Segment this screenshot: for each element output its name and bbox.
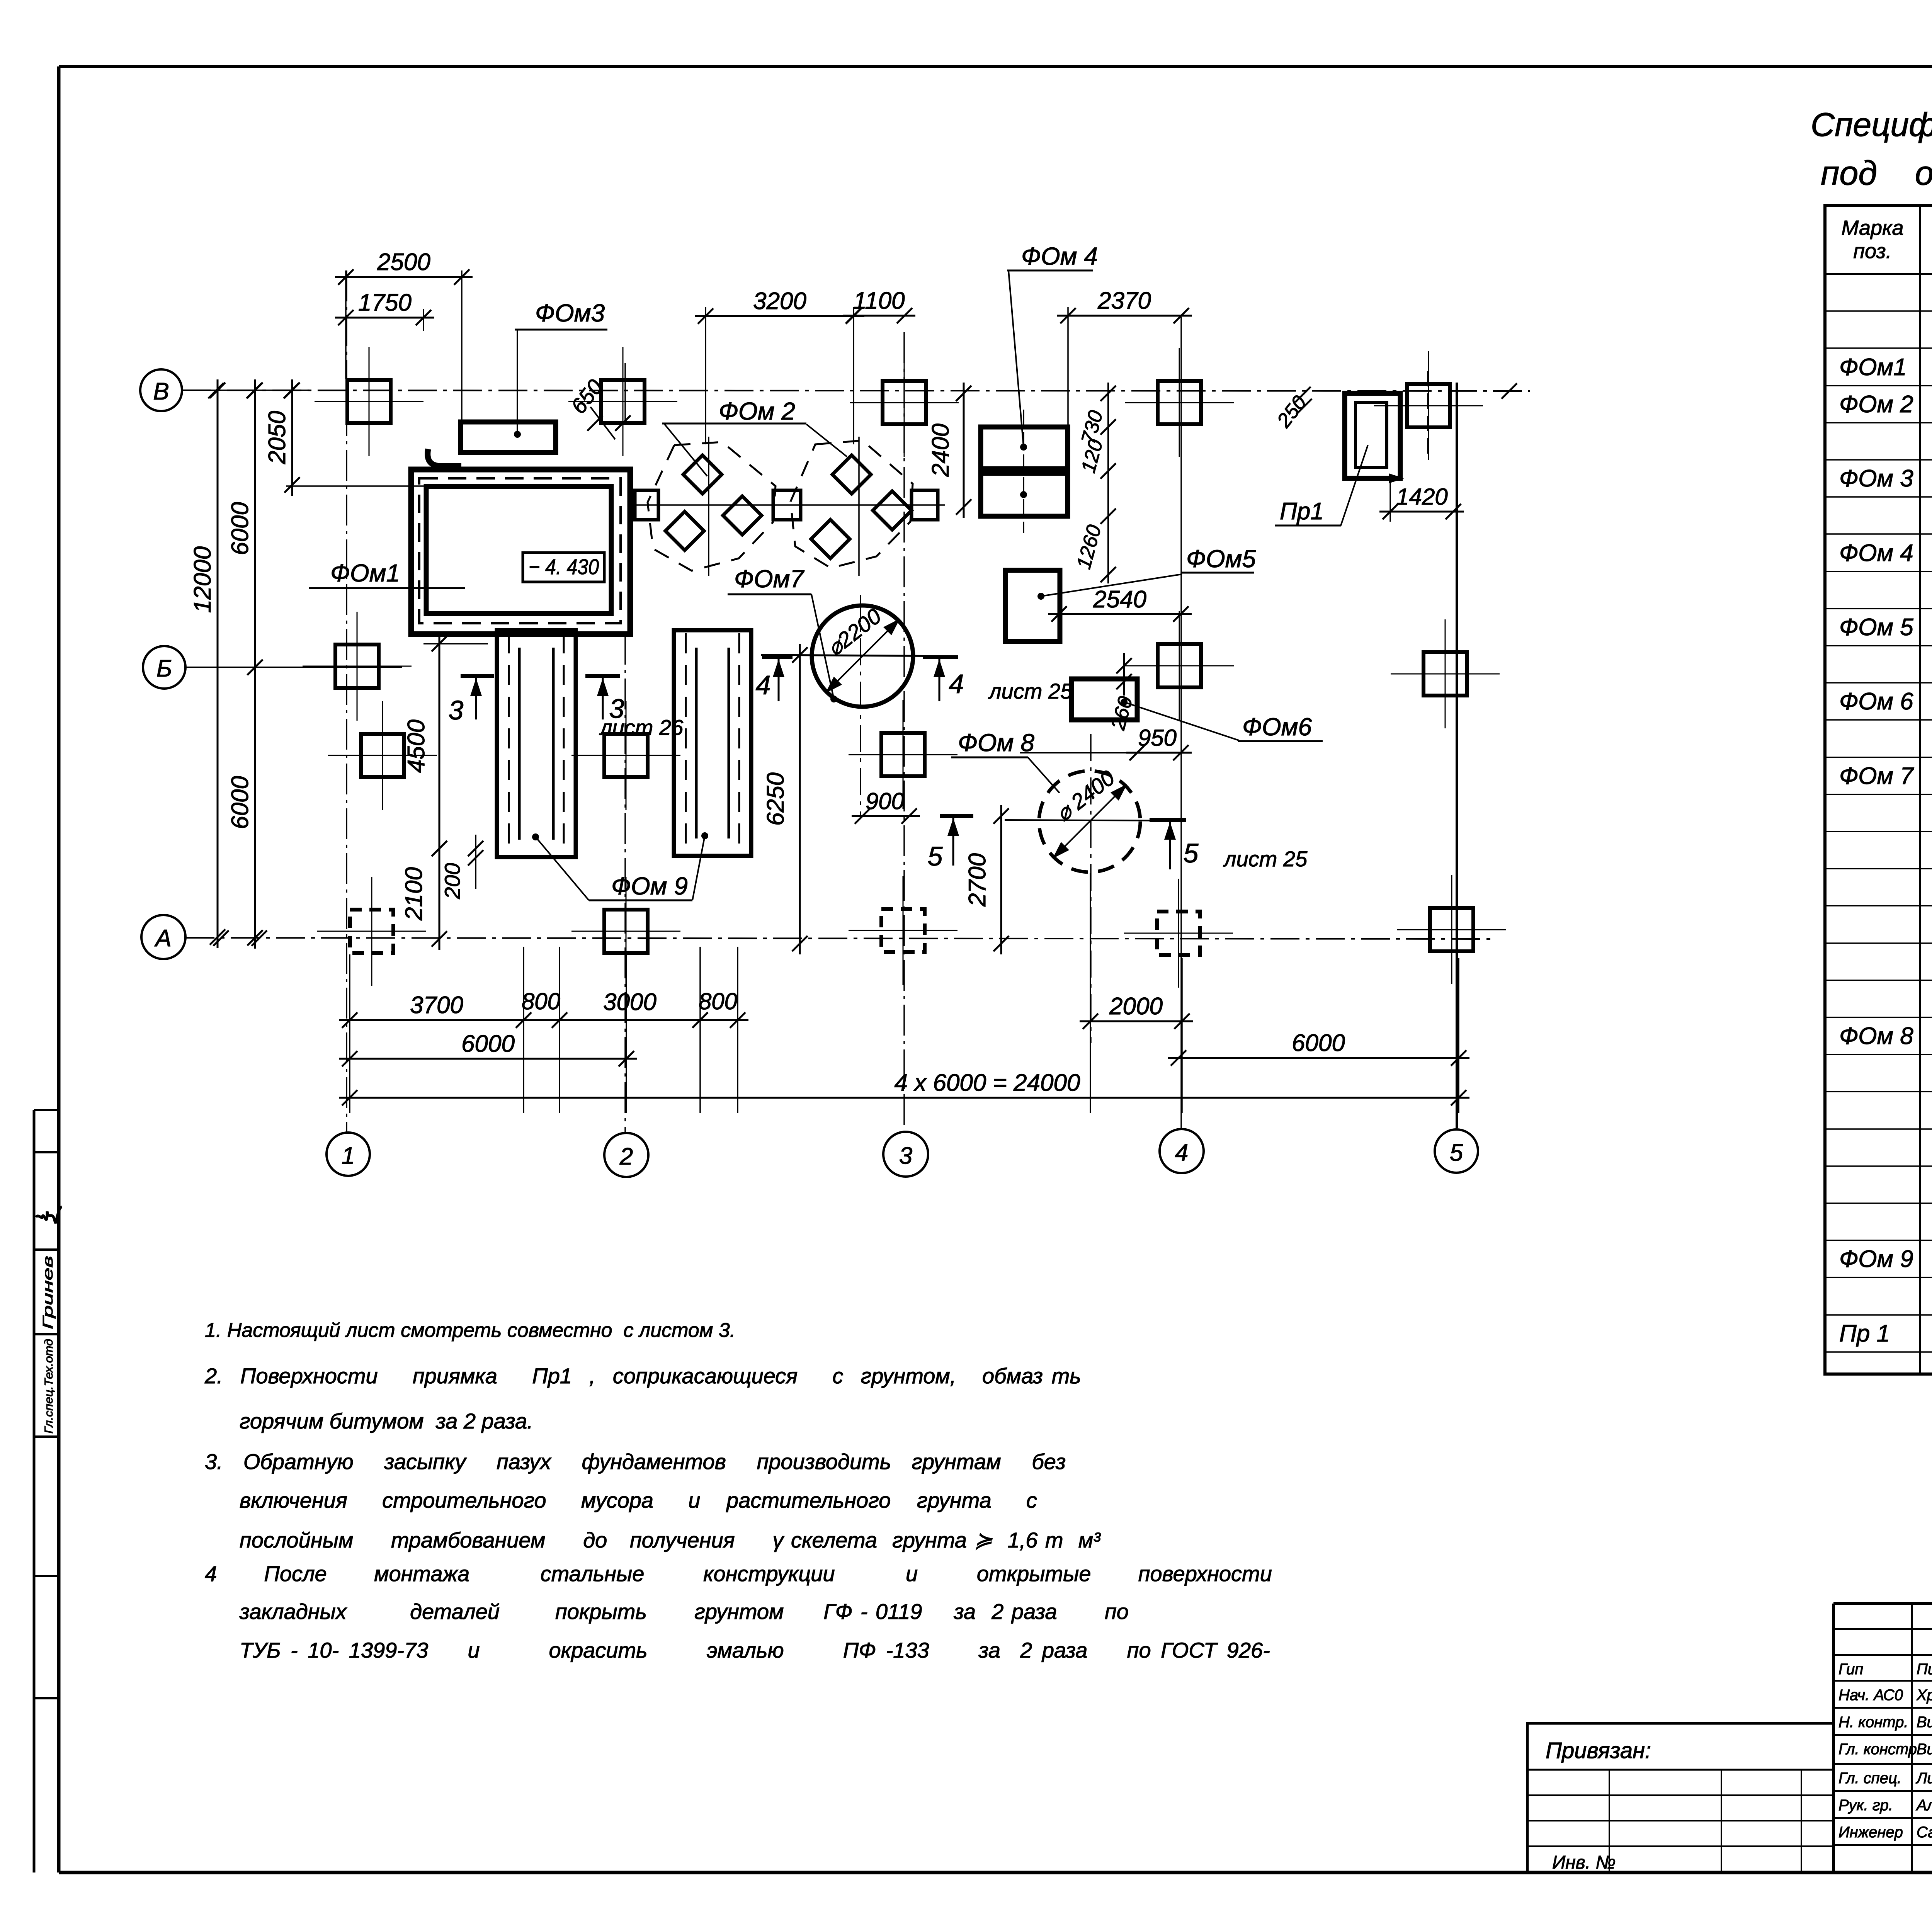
svg-text:ФОм 9: ФОм 9	[611, 872, 688, 900]
foundation FOm4 block 1	[981, 427, 1068, 469]
svg-text:ФОм6: ФОм6	[1242, 713, 1312, 741]
svg-text:4500: 4500	[403, 719, 430, 773]
dimension 2540	[1048, 613, 1192, 615]
svg-text:Гл. констр: Гл. констр	[1838, 1741, 1917, 1758]
svg-text:лист 25: лист 25	[988, 679, 1073, 703]
FOm7 vertical centerline	[860, 595, 861, 816]
svg-text:Н. контр.: Н. контр.	[1838, 1714, 1908, 1731]
svg-text:6000: 6000	[227, 776, 253, 829]
FOm2 cluster 1 dashed outline	[648, 442, 776, 571]
svg-text:Инв. №: Инв. №	[1552, 1852, 1616, 1873]
svg-text:ТУБ - 10- 1399-73 и о: ТУБ - 10- 1399-73 и окрасить эмалью ПФ -…	[240, 1638, 1270, 1662]
svg-text:3: 3	[899, 1143, 912, 1169]
pit Pr1 corner arrow	[1389, 473, 1404, 483]
grid circle 4	[1160, 1129, 1204, 1173]
specification table grid	[1825, 206, 1932, 1374]
FOm2 cluster 2 diamond bottom-left	[811, 520, 850, 558]
dimension 4500 vertical	[439, 633, 440, 859]
svg-text:Пр1: Пр1	[1280, 498, 1324, 525]
axis B line	[182, 390, 1530, 391]
svg-text:В: В	[153, 378, 169, 405]
svg-text:950: 950	[1138, 725, 1177, 751]
svg-text:6250: 6250	[762, 772, 789, 826]
dimension 2050	[291, 379, 293, 496]
dimension row 3000	[549, 1019, 711, 1021]
pit Pr1 inner	[1355, 403, 1387, 468]
svg-text:ФОм 3: ФОм 3	[1839, 465, 1913, 492]
level mark -4.430 box	[523, 553, 604, 582]
FOm8 vertical centerline	[1090, 734, 1092, 1043]
svg-text:5: 5	[1450, 1139, 1463, 1166]
svg-text:ФОм 4: ФОм 4	[1839, 540, 1913, 566]
FOm8 horizontal centerline	[1005, 820, 1186, 821]
dimension row 4x6000=24000	[339, 1097, 1469, 1099]
dimension 1750	[335, 317, 434, 319]
svg-text:А: А	[154, 925, 171, 952]
left stamp strip	[33, 1110, 36, 1872]
FOm2 cluster 2 diamond top	[832, 455, 871, 494]
svg-text:− 4. 430: − 4. 430	[529, 554, 599, 579]
left chain extension lines	[182, 389, 309, 391]
title block outline	[1833, 1602, 1932, 1605]
svg-text:ФОм1: ФОм1	[1839, 354, 1907, 381]
foundation FOm9 strip 2	[674, 630, 751, 856]
svg-text:4: 4	[949, 669, 964, 699]
dimension 6000 lower	[254, 656, 256, 949]
svg-text:2370: 2370	[1097, 287, 1151, 314]
FOm2 cluster 1 diamond right	[723, 496, 762, 535]
foundation FOm1 outer wall	[411, 469, 630, 634]
svg-text:ФОм3: ФОм3	[535, 299, 605, 327]
section 3-3 left mark	[461, 674, 494, 678]
column A-2	[604, 910, 648, 953]
svg-text:ФОм 8: ФОм 8	[1839, 1023, 1913, 1049]
dimension row 6000 right	[1168, 1057, 1469, 1059]
svg-text:2100: 2100	[401, 867, 427, 921]
section 3-3 right mark	[585, 674, 620, 678]
svg-text:800: 800	[522, 988, 560, 1014]
foundation FOm1 dashed contour	[419, 478, 621, 623]
sheet frame border	[59, 65, 1932, 68]
FOm2 row centerline	[634, 504, 945, 506]
axis A ticks left	[213, 930, 229, 946]
svg-text:Б: Б	[156, 655, 172, 682]
FOm7 diameter arrow	[827, 620, 898, 692]
dimension 2370	[1057, 315, 1192, 317]
FOm2 cluster 2 dashed outline	[791, 440, 913, 568]
dimension 1420	[1379, 511, 1464, 513]
svg-text:5: 5	[928, 841, 943, 871]
svg-text:2: 2	[619, 1143, 633, 1170]
column B-3	[883, 381, 926, 424]
svg-text:ФОм 4: ФОм 4	[1021, 242, 1098, 270]
grid line 5	[1456, 383, 1458, 1128]
svg-text:3000: 3000	[603, 989, 656, 1015]
svg-text:Лисичкин: Лисичкин	[1915, 1770, 1932, 1787]
dimension 2400 vertical	[963, 383, 965, 518]
axis B(middle) circle	[143, 646, 185, 689]
svg-text:1420: 1420	[1396, 484, 1447, 510]
svg-text:6000: 6000	[1292, 1030, 1345, 1056]
svg-text:3. Обратную засыпку пазух: 3. Обратную засыпку пазух фундаментов пр…	[205, 1449, 1066, 1474]
svg-text:Гл.спец.Тех.отд: Гл.спец.Тех.отд	[43, 1339, 55, 1434]
FOm2 cluster 1 diamond bottom-left	[665, 512, 704, 550]
FOm2 cluster 1 diamond top	[683, 455, 722, 494]
grid line 4	[1180, 317, 1182, 1128]
axis A line	[185, 938, 1492, 939]
dimension 950	[1126, 752, 1192, 754]
column B-1	[347, 380, 391, 423]
column A-4	[1157, 912, 1200, 955]
dimension row 2000	[1080, 1020, 1193, 1022]
FOm2 cluster centerline 2	[858, 437, 860, 576]
axis B ticks left	[208, 383, 224, 398]
axis B end tick	[1502, 383, 1517, 399]
foundation FOm4 block 2	[981, 473, 1068, 516]
column B(mid)-5	[1423, 652, 1467, 696]
section 5-5 right mark	[1150, 818, 1186, 822]
svg-text:3: 3	[449, 695, 464, 725]
svg-text:6000: 6000	[227, 502, 253, 555]
svg-text:2000: 2000	[1109, 993, 1163, 1020]
dimension row 800 b	[689, 1019, 748, 1021]
FOm4 centerline	[1023, 410, 1024, 533]
column A-1 dashed	[350, 910, 393, 953]
svg-text:4: 4	[1175, 1139, 1188, 1166]
foundation FOm8 circle	[1039, 771, 1140, 872]
svg-text:2400: 2400	[927, 423, 954, 477]
svg-text:Хрупало: Хрупало	[1916, 1687, 1932, 1704]
svg-text:900: 900	[866, 788, 904, 814]
svg-text:Гринев: Гринев	[40, 1256, 56, 1329]
svg-text:Гл. спец.: Гл. спец.	[1838, 1770, 1901, 1787]
dimension 6250 vertical	[799, 644, 801, 954]
svg-text:200: 200	[440, 863, 464, 899]
svg-text:4 х 6000 = 24000: 4 х 6000 = 24000	[895, 1070, 1080, 1096]
svg-text:включения строительного: включения строительного мусора и растите…	[240, 1488, 1037, 1512]
svg-text:ФОм 6: ФОм 6	[1839, 688, 1913, 715]
svg-text:лист 26: лист 26	[599, 715, 684, 740]
section 4-4 line	[761, 655, 958, 656]
column B-4	[1158, 381, 1201, 424]
svg-text:4 После монтажа ста: 4 После монтажа стальные конструкции и о…	[205, 1561, 1272, 1586]
grid circle 5	[1435, 1129, 1478, 1173]
svg-text:12000: 12000	[189, 546, 216, 613]
bottom extension lines	[349, 954, 350, 1113]
FOm2 cluster centerline 1	[708, 437, 709, 576]
svg-text:1750: 1750	[358, 289, 412, 316]
svg-text:1100: 1100	[853, 287, 905, 314]
svg-text:ФОм7: ФОм7	[734, 565, 805, 593]
FOm2 small square right	[912, 490, 938, 520]
svg-text:Марка: Марка	[1841, 216, 1903, 240]
dimension 900	[852, 815, 920, 817]
grid circle 1	[327, 1133, 370, 1176]
grid line 2	[624, 363, 626, 425]
svg-text:2500: 2500	[377, 249, 430, 276]
svg-text:Пивторак: Пивторак	[1917, 1661, 1932, 1678]
svg-text:Нач. АС0: Нач. АС0	[1838, 1687, 1903, 1704]
svg-text:послойным трамбованием: послойным трамбованием до получения γ ск…	[240, 1528, 1101, 1552]
dimension row 6000 left	[339, 1058, 637, 1060]
column mid-row 3	[881, 733, 925, 776]
foundation FOm1 inner wall	[426, 486, 611, 614]
column mid-row 2	[604, 734, 648, 777]
grid circle 2	[604, 1133, 648, 1177]
svg-text:Привязан:: Привязан:	[1546, 1738, 1651, 1763]
axis B(middle) line	[185, 667, 402, 668]
svg-text:ФОм 5: ФОм 5	[1839, 614, 1913, 641]
svg-text:Винклер: Винклер	[1917, 1714, 1932, 1731]
dimension 3200	[695, 315, 864, 317]
column B-5	[1407, 384, 1450, 427]
svg-text:ФОм1: ФОм1	[330, 559, 400, 587]
foundation FOm9 strip 1	[497, 630, 576, 857]
svg-text:ФОм 9: ФОм 9	[1839, 1246, 1913, 1272]
grid line 1	[346, 270, 347, 1132]
svg-text:закладных деталей: закладных деталей покрыть грунтом ГФ - 0…	[239, 1599, 1129, 1624]
column B-2	[601, 380, 645, 423]
svg-text:ФОм 7: ФОм 7	[1839, 763, 1914, 789]
dimension 12000	[217, 379, 219, 948]
dimension 6000 upper	[254, 379, 256, 678]
column mid-row 1	[361, 734, 404, 777]
column A-5	[1430, 908, 1473, 951]
foundation FOm3	[461, 422, 556, 452]
svg-text:Алехова: Алехова	[1916, 1797, 1932, 1814]
foundation FOm5	[1005, 570, 1060, 641]
axis B circle	[140, 369, 182, 411]
svg-text:Винклер: Винклер	[1917, 1741, 1932, 1758]
extension lines top dims	[345, 270, 347, 379]
svg-text:2540: 2540	[1093, 586, 1146, 613]
FOm8 diameter arrow	[1054, 786, 1126, 857]
svg-text:горячим битумом за 2 раза.: горячим битумом за 2 раза.	[240, 1409, 533, 1433]
pit Pr1 outer	[1345, 393, 1400, 478]
dimension row 800 a	[513, 1019, 570, 1021]
dimension 2500	[335, 276, 473, 278]
axis A circle	[141, 915, 185, 959]
hook shape near FOm3	[428, 449, 461, 466]
column B(mid)-4	[1158, 644, 1201, 687]
binding table Privyazan	[1527, 1723, 1833, 1872]
svg-text:6000: 6000	[461, 1031, 515, 1057]
svg-text:5: 5	[1184, 838, 1199, 868]
Pr1 centerline	[1427, 371, 1429, 456]
roles table grid	[1833, 1628, 1932, 1630]
svg-text:ФОм 2: ФОм 2	[719, 397, 795, 425]
svg-text:Гип: Гип	[1838, 1661, 1863, 1678]
svg-text:Сапрошина: Сапрошина	[1917, 1824, 1932, 1841]
section 4-4 left mark	[762, 655, 793, 659]
FOm2 cluster 2 diamond right	[873, 491, 912, 530]
dimension 2100 vertical	[439, 838, 440, 950]
FOm2 small square left	[635, 490, 658, 520]
column A-3	[881, 909, 925, 952]
svg-text:3200: 3200	[753, 288, 806, 315]
svg-text:Инженер: Инженер	[1838, 1824, 1903, 1841]
svg-text:2050: 2050	[264, 411, 291, 464]
svg-text:лист 25: лист 25	[1223, 847, 1308, 871]
FOm2 small square middle	[773, 490, 801, 520]
svg-text:ФОм 2: ФОм 2	[1839, 391, 1913, 418]
foundation FOm7 circle	[812, 605, 913, 707]
dimension 1100	[843, 315, 915, 317]
svg-text:поз.: поз.	[1853, 240, 1891, 263]
svg-text:Пр 1: Пр 1	[1839, 1320, 1890, 1347]
svg-text:под оборудование: под оборудование	[1821, 154, 1932, 192]
section 4-4 right mark	[923, 655, 958, 659]
svg-text:3700: 3700	[410, 992, 463, 1019]
svg-text:1: 1	[342, 1143, 355, 1169]
stamp signature	[36, 1207, 62, 1223]
svg-text:Спецификация к схеме распол: Спецификация к схеме расположения фундам…	[1811, 106, 1932, 143]
dim line 730-120-1260	[1107, 383, 1109, 583]
section 5-5 left mark	[940, 814, 973, 818]
svg-text:2700: 2700	[964, 853, 991, 907]
svg-text:800: 800	[699, 988, 737, 1014]
svg-text:4: 4	[756, 670, 771, 700]
column B(mid)-1	[335, 645, 379, 688]
foundation FOm6	[1071, 679, 1137, 720]
dimension row 3700	[339, 1019, 534, 1021]
grid circle 3	[883, 1132, 928, 1177]
svg-text:Рук. гр.: Рук. гр.	[1838, 1797, 1893, 1814]
svg-text:1. Настоящий лист смотреть сов: 1. Настоящий лист смотреть совместно с л…	[205, 1319, 735, 1342]
svg-text:2. Поверхности приямка: 2. Поверхности приямка Пр1 , соприкасающ…	[204, 1364, 1081, 1388]
dimension 2700 vertical	[1000, 805, 1002, 954]
grid line 3	[903, 332, 905, 1132]
svg-text:ФОм5: ФОм5	[1186, 545, 1256, 573]
